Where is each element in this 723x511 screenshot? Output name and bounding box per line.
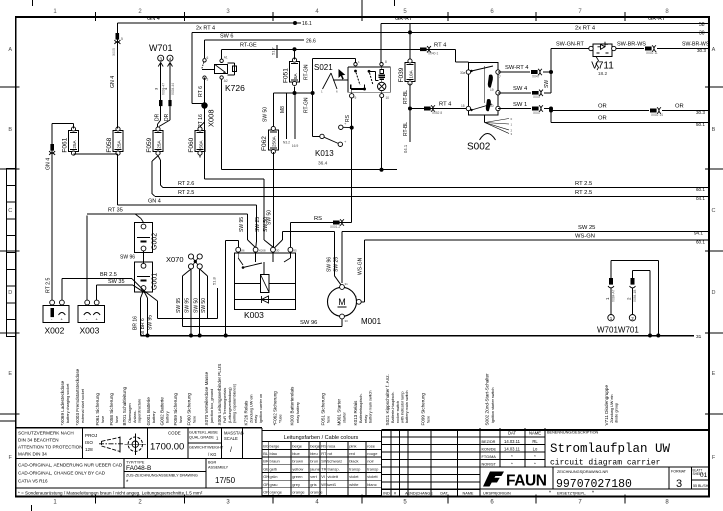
- svg-text:BGR: BGR: [208, 461, 216, 465]
- svg-text:RT-BL: RT-BL: [403, 122, 409, 136]
- svg-text:SW 50: SW 50: [266, 210, 272, 225]
- svg-text:NAME: NAME: [463, 492, 474, 496]
- svg-text:CAD-ORIGINAL, CHANGE ONLY BY C: CAD-ORIGINAL, CHANGE ONLY BY CAD: [18, 471, 106, 476]
- svg-text:jaune: jaune: [309, 466, 321, 471]
- svg-text:16.1: 16.1: [302, 21, 312, 27]
- svg-text:beige: beige: [292, 443, 303, 448]
- svg-text:orange: orange: [270, 489, 283, 494]
- svg-text:G001 Batterie: G001 Batterie: [146, 397, 151, 426]
- svg-text:MARK DIN 34: MARK DIN 34: [18, 452, 47, 457]
- svg-text:braun: braun: [270, 459, 280, 464]
- svg-text:SW 1: SW 1: [513, 102, 527, 108]
- svg-text:SW 25: SW 25: [578, 225, 595, 231]
- svg-text:30: 30: [699, 31, 705, 37]
- svg-text:orange: orange: [292, 489, 305, 494]
- svg-text:F060 Sicherung: F060 Sicherung: [187, 393, 192, 426]
- svg-text:04.1: 04.1: [696, 196, 705, 201]
- svg-text:*fuse: *fuse: [279, 414, 283, 423]
- svg-text:25A: 25A: [156, 139, 161, 148]
- svg-text:50A: 50A: [198, 139, 203, 148]
- svg-text:BENENNUNG/DESCRIPTION: BENENNUNG/DESCRIPTION: [547, 431, 599, 435]
- svg-text:N3.2: N3.2: [283, 141, 290, 145]
- svg-text:D: D: [712, 290, 716, 296]
- svg-text:X052 8: X052 8: [432, 111, 442, 115]
- svg-text:X002: X002: [45, 326, 65, 336]
- svg-text:31: 31: [696, 334, 702, 340]
- svg-text:ignition carrier on: ignition carrier on: [259, 394, 263, 423]
- svg-text:30.3: 30.3: [696, 110, 705, 115]
- svg-text:K003: K003: [244, 310, 264, 320]
- svg-text:NAME: NAME: [529, 431, 541, 436]
- svg-text:G002: G002: [152, 233, 159, 250]
- svg-text:19: 19: [490, 88, 494, 92]
- svg-text:(Leitungsverbindung): (Leitungsverbindung): [228, 387, 232, 423]
- svg-text:TR: TR: [321, 466, 326, 471]
- svg-text:TYP/TYPE: TYP/TYPE: [126, 461, 145, 465]
- svg-text:F062: F062: [261, 136, 268, 151]
- svg-text:51.8: 51.8: [212, 276, 217, 285]
- svg-text:blau: blau: [270, 451, 278, 456]
- svg-text:violett: violett: [328, 474, 339, 479]
- svg-text:RT 2.5: RT 2.5: [178, 190, 194, 196]
- svg-text:A: A: [8, 47, 12, 53]
- svg-text:S002 Zünd-Start-Schalter: S002 Zünd-Start-Schalter: [485, 373, 490, 426]
- svg-text:SW 35: SW 35: [108, 279, 125, 285]
- svg-text:W701: W701: [149, 43, 173, 53]
- svg-text:transp: transp: [367, 466, 379, 471]
- svg-text:3x BR 6: 3x BR 6: [140, 318, 146, 336]
- svg-text:M001 Starter: M001 Starter: [336, 398, 341, 425]
- svg-text:ASSEMBLY: ASSEMBLY: [208, 466, 229, 470]
- svg-text:GN 4: GN 4: [110, 76, 116, 88]
- svg-text:B: B: [8, 127, 12, 133]
- svg-text:/: /: [230, 447, 232, 454]
- svg-text:36.4: 36.4: [318, 161, 328, 167]
- svg-text:VI: VI: [321, 474, 325, 479]
- svg-text:red: red: [349, 451, 355, 456]
- svg-text:X004-47: X004-47: [162, 83, 166, 95]
- svg-text:X047: X047: [532, 75, 540, 79]
- svg-text:SW 95: SW 95: [176, 298, 182, 313]
- svg-text:10: 10: [386, 96, 390, 100]
- svg-text:RT-GE: RT-GE: [240, 43, 257, 49]
- svg-text:F061 Sicherung: F061 Sicherung: [95, 393, 100, 426]
- svg-text:GN 4: GN 4: [46, 158, 52, 170]
- svg-text:relay battery: relay battery: [296, 402, 300, 423]
- svg-text:RT 2.5: RT 2.5: [46, 278, 52, 293]
- svg-text:55 BL/SH: 55 BL/SH: [693, 484, 709, 488]
- svg-text:bleu: bleu: [310, 451, 318, 456]
- svg-text:1700.00: 1700.00: [150, 442, 184, 453]
- svg-text:94.1: 94.1: [694, 231, 703, 236]
- svg-text:blue: blue: [292, 451, 300, 456]
- svg-text:battery: battery: [166, 411, 170, 423]
- svg-text:grün: grün: [270, 474, 278, 479]
- svg-text:F039: F039: [398, 67, 405, 82]
- svg-text:fuse: fuse: [327, 416, 331, 423]
- svg-text:Zündung UW ein: Zündung UW ein: [250, 395, 254, 424]
- svg-text:gris: gris: [310, 482, 316, 487]
- svg-text:128: 128: [85, 447, 93, 452]
- svg-text:50.1: 50.1: [696, 122, 705, 127]
- svg-text:8A: 8A: [293, 72, 298, 79]
- svg-text:WS-GN: WS-GN: [358, 257, 364, 275]
- svg-text:black: black: [349, 459, 358, 464]
- svg-text:V711: V711: [591, 61, 614, 72]
- svg-text:3: 3: [207, 78, 209, 82]
- svg-text:RT 2.5: RT 2.5: [575, 190, 592, 196]
- svg-text:X003: X003: [80, 326, 100, 336]
- svg-text:SW-GN-RT: SW-GN-RT: [556, 42, 585, 48]
- svg-text:BT01 Schaltleitung: BT01 Schaltleitung: [122, 386, 127, 425]
- svg-text:SW-BR-WS: SW-BR-WS: [682, 42, 710, 48]
- svg-text:RS: RS: [314, 216, 322, 222]
- svg-text:250A: 250A: [272, 135, 277, 147]
- svg-text:X084-A7: X084-A7: [612, 289, 616, 302]
- svg-text:ZEICHNUNGS|DRAWING-NR: ZEICHNUNGS|DRAWING-NR: [557, 470, 608, 474]
- svg-text:MASSTAB: MASSTAB: [224, 431, 244, 436]
- svg-text:X047: X047: [533, 95, 541, 99]
- svg-text:51.7: 51.7: [271, 46, 276, 55]
- svg-text:white: white: [349, 482, 359, 487]
- svg-text:30: 30: [345, 319, 349, 323]
- svg-text:SW 25: SW 25: [333, 257, 339, 272]
- svg-text:G002 Batterie: G002 Batterie: [160, 397, 165, 426]
- svg-text:noir: noir: [367, 459, 374, 464]
- svg-text:*: *: [549, 491, 551, 497]
- svg-text:C: C: [712, 208, 716, 214]
- svg-text:*: *: [592, 491, 594, 497]
- svg-text:60.1: 60.1: [696, 187, 705, 192]
- svg-text:beige: beige: [310, 443, 321, 448]
- svg-text:BR 2.5: BR 2.5: [100, 272, 117, 278]
- svg-text:SW 95: SW 95: [239, 217, 245, 232]
- svg-text:SW-RT 4: SW-RT 4: [505, 65, 529, 71]
- svg-text:ERSETZT|REPL.: ERSETZT|REPL.: [557, 492, 586, 496]
- svg-text:transp.: transp.: [328, 466, 340, 471]
- svg-text:B: B: [712, 127, 716, 133]
- svg-text:RT 2.5: RT 2.5: [575, 181, 592, 187]
- svg-text:rocker switch: rocker switch: [396, 401, 400, 423]
- svg-text:9: 9: [355, 96, 357, 100]
- svg-text:FA048-B: FA048-B: [126, 465, 151, 472]
- svg-text:SW 6: SW 6: [220, 34, 233, 40]
- svg-text:OR: OR: [675, 104, 684, 110]
- svg-text:S021: S021: [314, 63, 333, 72]
- svg-text:with indicator lamp: with indicator lamp: [400, 392, 404, 423]
- svg-text:RS: RS: [345, 114, 351, 122]
- svg-text:X070: X070: [166, 255, 184, 264]
- svg-text:IND: IND: [383, 492, 390, 496]
- svg-text:SW 96: SW 96: [327, 257, 333, 272]
- svg-text:yellow: yellow: [292, 466, 303, 471]
- svg-text:F058 Sicherung: F058 Sicherung: [109, 393, 114, 426]
- svg-text:relay: relay: [364, 415, 368, 423]
- svg-text:+: +: [355, 295, 357, 299]
- svg-text:* = Sonderausrüstung / Massele: * = Sonderausrüstung / Masseleitungen br…: [18, 491, 203, 496]
- svg-text:BR 16: BR 16: [133, 316, 139, 330]
- svg-text:K013 Relais: K013 Relais: [353, 400, 358, 425]
- svg-text:X001-2: X001-2: [330, 225, 341, 229]
- svg-text:violett: violett: [367, 474, 378, 479]
- svg-text:fuse: fuse: [115, 416, 119, 423]
- svg-text:battery: battery: [152, 411, 156, 423]
- svg-text:starter: starter: [343, 412, 347, 423]
- svg-text:30: 30: [276, 249, 280, 253]
- svg-text:ATTENTION TO PROTECTION: ATTENTION TO PROTECTION: [18, 445, 83, 450]
- svg-text:*F062 Sicherung: *F062 Sicherung: [272, 391, 277, 426]
- svg-text:K013: K013: [315, 149, 334, 158]
- svg-text:FORMAT: FORMAT: [671, 470, 687, 474]
- svg-text:85: 85: [293, 249, 297, 253]
- svg-text:SW 95: SW 95: [185, 298, 191, 313]
- svg-text:M8: M8: [280, 106, 286, 113]
- svg-text:battery main switch: battery main switch: [368, 391, 372, 424]
- svg-text:AEND|CHANGE: AEND|CHANGE: [405, 492, 433, 496]
- svg-text:X005: X005: [112, 48, 116, 56]
- svg-text:DR: DR: [164, 113, 170, 121]
- svg-text:A: A: [712, 47, 716, 53]
- svg-text:F099 Sicherung: F099 Sicherung: [421, 393, 426, 426]
- svg-text:SW 50: SW 50: [263, 107, 269, 122]
- svg-text:18.2: 18.2: [598, 71, 608, 77]
- svg-text:external start socket: external start socket: [81, 388, 85, 423]
- svg-text:CATIA V5 R16: CATIA V5 R16: [18, 479, 48, 484]
- svg-text:04.1: 04.1: [403, 144, 408, 153]
- svg-text:Stromlaufplan UW: Stromlaufplan UW: [550, 442, 671, 456]
- svg-text:violet: violet: [349, 474, 359, 479]
- svg-text:58: 58: [699, 22, 705, 28]
- svg-text:K726: K726: [225, 83, 245, 93]
- svg-text:14.03.11: 14.03.11: [504, 439, 521, 444]
- svg-text:X002 11: X002 11: [646, 51, 658, 55]
- svg-text:2x RT 4: 2x RT 4: [196, 26, 215, 32]
- svg-text:SW: SW: [544, 80, 550, 88]
- svg-text:fuse: fuse: [193, 416, 197, 423]
- svg-text:Lo: Lo: [533, 447, 538, 452]
- svg-text:15: 15: [461, 104, 465, 108]
- svg-text:31: 31: [345, 282, 349, 286]
- svg-text:F061: F061: [61, 137, 68, 152]
- svg-text:F059: F059: [146, 137, 153, 152]
- svg-text:F059 Sicherung: F059 Sicherung: [173, 393, 178, 426]
- svg-text:GR-RT: GR-RT: [395, 16, 413, 22]
- svg-text:S021 Kippschalter f. Anz.: S021 Kippschalter f. Anz.: [385, 374, 390, 425]
- svg-text:17/50: 17/50: [215, 476, 236, 485]
- svg-text:86: 86: [241, 249, 245, 253]
- svg-text:battery charging socket: battery charging socket: [66, 383, 70, 423]
- svg-text:transp: transp: [349, 466, 361, 471]
- svg-text:E: E: [8, 371, 12, 377]
- svg-text:A1: A1: [224, 56, 228, 60]
- svg-text:fuse: fuse: [179, 416, 183, 423]
- svg-text:PROJ: PROJ: [85, 433, 97, 438]
- svg-text:(wiring copalambiance): (wiring copalambiance): [232, 383, 236, 423]
- svg-text:RL: RL: [532, 439, 538, 444]
- svg-text:RT 4: RT 4: [439, 102, 452, 108]
- svg-text:brun: brun: [310, 459, 318, 464]
- svg-text:F058: F058: [106, 137, 113, 152]
- svg-text:7: 7: [499, 75, 501, 79]
- svg-text:X006 Leitungsverbinder PLUS: X006 Leitungsverbinder PLUS: [217, 364, 222, 426]
- svg-text:Leitungsfarben / Cable colours: Leitungsfarben / Cable colours: [284, 435, 359, 441]
- svg-text:F051: F051: [282, 68, 289, 83]
- svg-text:SW 4: SW 4: [513, 86, 528, 92]
- svg-text:G001: G001: [152, 273, 159, 290]
- svg-text:grey: grey: [292, 482, 300, 487]
- svg-text:RT 35: RT 35: [108, 207, 123, 213]
- svg-text:SCALE: SCALE: [224, 436, 238, 441]
- svg-text:SW 50: SW 50: [193, 298, 199, 313]
- svg-text:WS-GN: WS-GN: [575, 234, 595, 240]
- svg-text:RT-GN: RT-GN: [304, 64, 310, 80]
- svg-text:weiß: weiß: [328, 482, 337, 487]
- svg-text:OR: OR: [598, 104, 607, 110]
- svg-text:Oberwagen: Oberwagen: [128, 403, 132, 423]
- svg-text:X002 14: X002 14: [651, 113, 663, 117]
- svg-text:DR: DR: [155, 113, 161, 121]
- svg-text:30a: 30a: [460, 71, 466, 75]
- svg-text:rouge: rouge: [367, 451, 378, 456]
- svg-text:W701W701: W701W701: [597, 326, 639, 335]
- svg-text:RT 2.6: RT 2.6: [178, 181, 194, 187]
- svg-text:CODE: CODE: [168, 431, 181, 436]
- svg-text:grau: grau: [270, 482, 278, 487]
- svg-text:circuit diagram carrier: circuit diagram carrier: [550, 459, 661, 468]
- svg-text:*X069 Ladesteckdose: *X069 Ladesteckdose: [60, 380, 65, 425]
- svg-text:GEWICHT/WEIGHT: GEWICHT/WEIGHT: [189, 446, 224, 450]
- svg-text:14.03.11: 14.03.11: [504, 447, 521, 452]
- svg-text:DAT: DAT: [508, 431, 517, 436]
- svg-text:rosa: rosa: [328, 443, 337, 448]
- svg-text:E: E: [712, 371, 716, 377]
- svg-text:SW 96: SW 96: [300, 320, 317, 326]
- svg-text:25A: 25A: [116, 139, 121, 148]
- svg-text:M001: M001: [361, 317, 382, 326]
- svg-text:01: 01: [700, 472, 708, 479]
- svg-text:GR-RT: GR-RT: [648, 16, 666, 22]
- svg-text:Batteriehauptsch.: Batteriehauptsch.: [359, 393, 363, 423]
- svg-text:brown: brown: [292, 459, 303, 464]
- svg-text:rose: rose: [367, 443, 376, 448]
- svg-text:battery main switch: battery main switch: [405, 391, 409, 424]
- svg-text:NOR/ST: NOR/ST: [482, 463, 497, 467]
- svg-text:X070 Verteilerdose Masse: X070 Verteilerdose Masse: [204, 371, 209, 425]
- svg-text:GN 4: GN 4: [147, 16, 160, 22]
- svg-text:X047: X047: [533, 111, 541, 115]
- svg-text:DIN 34 BEACHTEN: DIN 34 BEACHTEN: [18, 438, 59, 443]
- svg-text:CAD-ORIGINAL, AENDERUNG NUR UE: CAD-ORIGINAL, AENDERUNG NUR UEBER CAD: [18, 463, 123, 468]
- svg-text:superstructure: superstructure: [137, 399, 141, 423]
- svg-text:FuR Trennungsrelais: FuR Trennungsrelais: [223, 388, 227, 423]
- svg-text:60.1: 60.1: [696, 240, 705, 245]
- svg-text:GUETEKL.ABSE: GUETEKL.ABSE: [189, 431, 218, 435]
- svg-text:green: green: [292, 474, 302, 479]
- svg-text:V711 Diodengruppe: V711 Diodengruppe: [604, 385, 609, 426]
- svg-text:30.3: 30.3: [697, 48, 706, 53]
- svg-text:SW 96: SW 96: [120, 255, 135, 261]
- svg-text:FTG/MA: FTG/MA: [482, 455, 497, 459]
- svg-text:GN 4: GN 4: [148, 198, 161, 204]
- svg-text:RT-GN: RT-GN: [304, 97, 310, 113]
- svg-text:S002: S002: [467, 142, 491, 153]
- svg-text:Anlass-: Anlass-: [133, 410, 137, 423]
- svg-text:2x RT 4: 2x RT 4: [575, 26, 596, 32]
- svg-text:beige: beige: [270, 443, 281, 448]
- svg-text:X004-44: X004-44: [171, 83, 175, 95]
- svg-text:SCHUTZVERMERK NACH: SCHUTZVERMERK NACH: [18, 431, 74, 436]
- svg-text:SW 50: SW 50: [201, 298, 207, 313]
- svg-text:SW 25: SW 25: [255, 217, 261, 232]
- svg-text:K003 Batterierelais: K003 Batterierelais: [290, 386, 295, 426]
- svg-text:26.6: 26.6: [306, 39, 316, 45]
- svg-text:K726 Relais: K726 Relais: [243, 400, 248, 425]
- svg-text:FAUN: FAUN: [506, 473, 547, 490]
- svg-text:SW-BR-WS: SW-BR-WS: [617, 42, 646, 48]
- svg-text:SW 95: SW 95: [148, 315, 154, 330]
- svg-text:X008: X008: [259, 249, 266, 253]
- svg-text:F051 Sicherung: F051 Sicherung: [321, 393, 326, 426]
- svg-text:ignition starter switch: ignition starter switch: [491, 388, 495, 423]
- svg-text:orange: orange: [310, 489, 323, 494]
- svg-text:D: D: [8, 290, 12, 296]
- svg-text:5: 5: [121, 37, 123, 41]
- svg-text:blanc: blanc: [367, 482, 377, 487]
- svg-text:X040-1: X040-1: [428, 52, 439, 56]
- svg-text:ZUS-ZEICHNUNG/ASSEMBLY DRAWING: ZUS-ZEICHNUNG/ASSEMBLY DRAWING: [126, 474, 198, 478]
- svg-text:X084-1B: X084-1B: [633, 290, 637, 302]
- svg-text:10A: 10A: [408, 69, 413, 78]
- svg-text:8: 8: [385, 60, 387, 64]
- svg-text:X008: X008: [207, 109, 216, 127]
- svg-text:M: M: [338, 297, 346, 307]
- svg-text:OR: OR: [598, 116, 607, 122]
- svg-text:DAT: DAT: [440, 492, 448, 496]
- svg-text:RT 4: RT 4: [434, 43, 447, 49]
- svg-text:*X003 Fremdstartsteckdose: *X003 Fremdstartsteckdose: [75, 368, 80, 425]
- svg-text:/ KG: / KG: [208, 452, 216, 457]
- svg-text:pink: pink: [349, 443, 356, 448]
- svg-text:ISO: ISO: [85, 440, 93, 445]
- svg-text:fuse: fuse: [101, 416, 105, 423]
- svg-text:fuse: fuse: [427, 416, 431, 423]
- svg-text:RT-BL: RT-BL: [403, 90, 409, 104]
- svg-text:URSPR|ORIGIN: URSPR|ORIGIN: [483, 492, 511, 496]
- svg-text:16.9: 16.9: [292, 144, 299, 148]
- svg-text:KON/DE: KON/DE: [482, 448, 497, 452]
- svg-text:relay: relay: [254, 415, 258, 423]
- svg-text:99707027180: 99707027180: [556, 478, 632, 491]
- svg-text:vert: vert: [310, 474, 318, 479]
- svg-text:C: C: [8, 208, 12, 214]
- svg-text:BEZ/DR: BEZ/DR: [482, 440, 496, 444]
- svg-text:QUAL.GRADE: QUAL.GRADE: [189, 436, 214, 440]
- svg-text:junction box_ground: junction box_ground: [210, 389, 214, 424]
- svg-text:RT 6: RT 6: [198, 86, 204, 97]
- svg-text:gelb: gelb: [270, 466, 278, 471]
- svg-text:Zündung UW ein: Zündung UW ein: [610, 395, 614, 424]
- svg-text:Batterie-Hauptsch.: Batterie-Hauptsch.: [391, 392, 395, 423]
- svg-text:F060: F060: [188, 137, 195, 152]
- svg-text:25A: 25A: [72, 139, 77, 148]
- svg-text:schwarz: schwarz: [328, 459, 343, 464]
- svg-text:3: 3: [676, 478, 682, 490]
- svg-text:diode group: diode group: [615, 403, 619, 423]
- svg-text:6: 6: [207, 56, 209, 60]
